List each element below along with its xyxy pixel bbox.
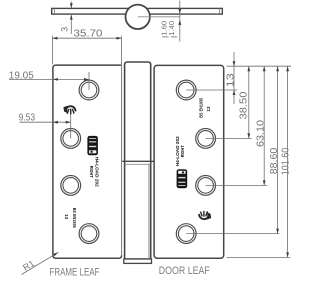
svg-text:13: 13 [64,214,69,220]
svg-text:38.50: 38.50 [239,91,250,119]
svg-text:BS EN1935: BS EN1935 [72,208,77,228]
svg-text:101.60: 101.60 [281,147,292,175]
svg-text:R1: R1 [21,258,36,273]
svg-text:1.60: 1.60 [161,21,168,36]
svg-text:FRAME LEAF: FRAME LEAF [50,266,100,278]
svg-text:35.70: 35.70 [74,29,104,40]
svg-text:RIGHT: RIGHT [180,145,185,157]
svg-text:13: 13 [225,73,236,88]
svg-text:13: 13 [206,106,211,112]
svg-text:BS EN1935: BS EN1935 [199,97,204,117]
svg-text:88.60: 88.60 [269,147,280,174]
svg-text:RIGHT: RIGHT [89,166,94,178]
svg-text:3: 3 [60,27,70,32]
svg-text:63.10: 63.10 [256,120,267,147]
svg-text:9.53: 9.53 [19,112,36,123]
svg-text:DOOR LEAF: DOOR LEAF [159,265,210,277]
svg-text:19.05: 19.05 [9,70,34,81]
svg-text:1.40: 1.40 [169,21,176,36]
